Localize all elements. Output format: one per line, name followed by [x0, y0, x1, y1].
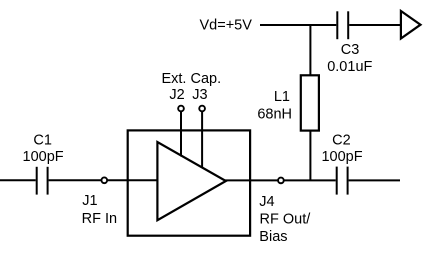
svg-text:100pF: 100pF	[23, 149, 64, 165]
wire box to J4	[250, 179, 278, 181]
wire supply drop to L1	[309, 24, 311, 75]
svg-text:L1: L1	[274, 89, 290, 105]
svg-text:100pF: 100pF	[321, 149, 362, 165]
output arrow triangle	[401, 11, 421, 39]
svg-text:C2: C2	[332, 132, 351, 148]
pin J3	[199, 106, 205, 112]
svg-text:0.01uF: 0.01uF	[327, 59, 372, 75]
svg-text:68nH: 68nH	[257, 106, 292, 122]
wire C1 to J1	[49, 179, 101, 181]
wire apex to box right edge	[225, 179, 250, 181]
wire J1 into box to triangle	[108, 179, 157, 181]
op-amp triangle	[157, 142, 226, 220]
svg-text:C3: C3	[341, 42, 360, 58]
inductor L1	[257, 75, 319, 130]
svg-text:J3: J3	[192, 87, 207, 103]
amplifier block box	[128, 130, 250, 235]
svg-text:RF In: RF In	[82, 211, 117, 227]
svg-text:Vd=+5V: Vd=+5V	[200, 18, 253, 34]
capacitor C1	[23, 133, 64, 195]
wire J4 to C2 (through L1 junction)	[284, 179, 335, 181]
wire J2 stem	[180, 111, 182, 157]
capacitor C3	[327, 11, 372, 75]
wire L1 to main line	[309, 131, 311, 181]
svg-text:Ext. Cap.: Ext. Cap.	[161, 71, 221, 87]
wire C3 to output triangle	[349, 24, 401, 26]
wire supply top	[260, 24, 336, 26]
svg-text:J4: J4	[259, 194, 274, 210]
wire C2 to right end	[349, 179, 400, 181]
capacitor C2	[321, 132, 362, 194]
svg-text:J2: J2	[169, 87, 184, 103]
wire J3 stem	[201, 111, 203, 168]
node J1	[82, 177, 117, 227]
pin J2	[178, 106, 184, 112]
svg-text:J1: J1	[82, 193, 97, 209]
wire input segment left	[0, 179, 36, 181]
svg-text:RF Out/: RF Out/	[260, 212, 312, 228]
svg-text:Bias: Bias	[259, 229, 287, 245]
node J4	[259, 178, 311, 245]
svg-text:C1: C1	[33, 133, 52, 149]
